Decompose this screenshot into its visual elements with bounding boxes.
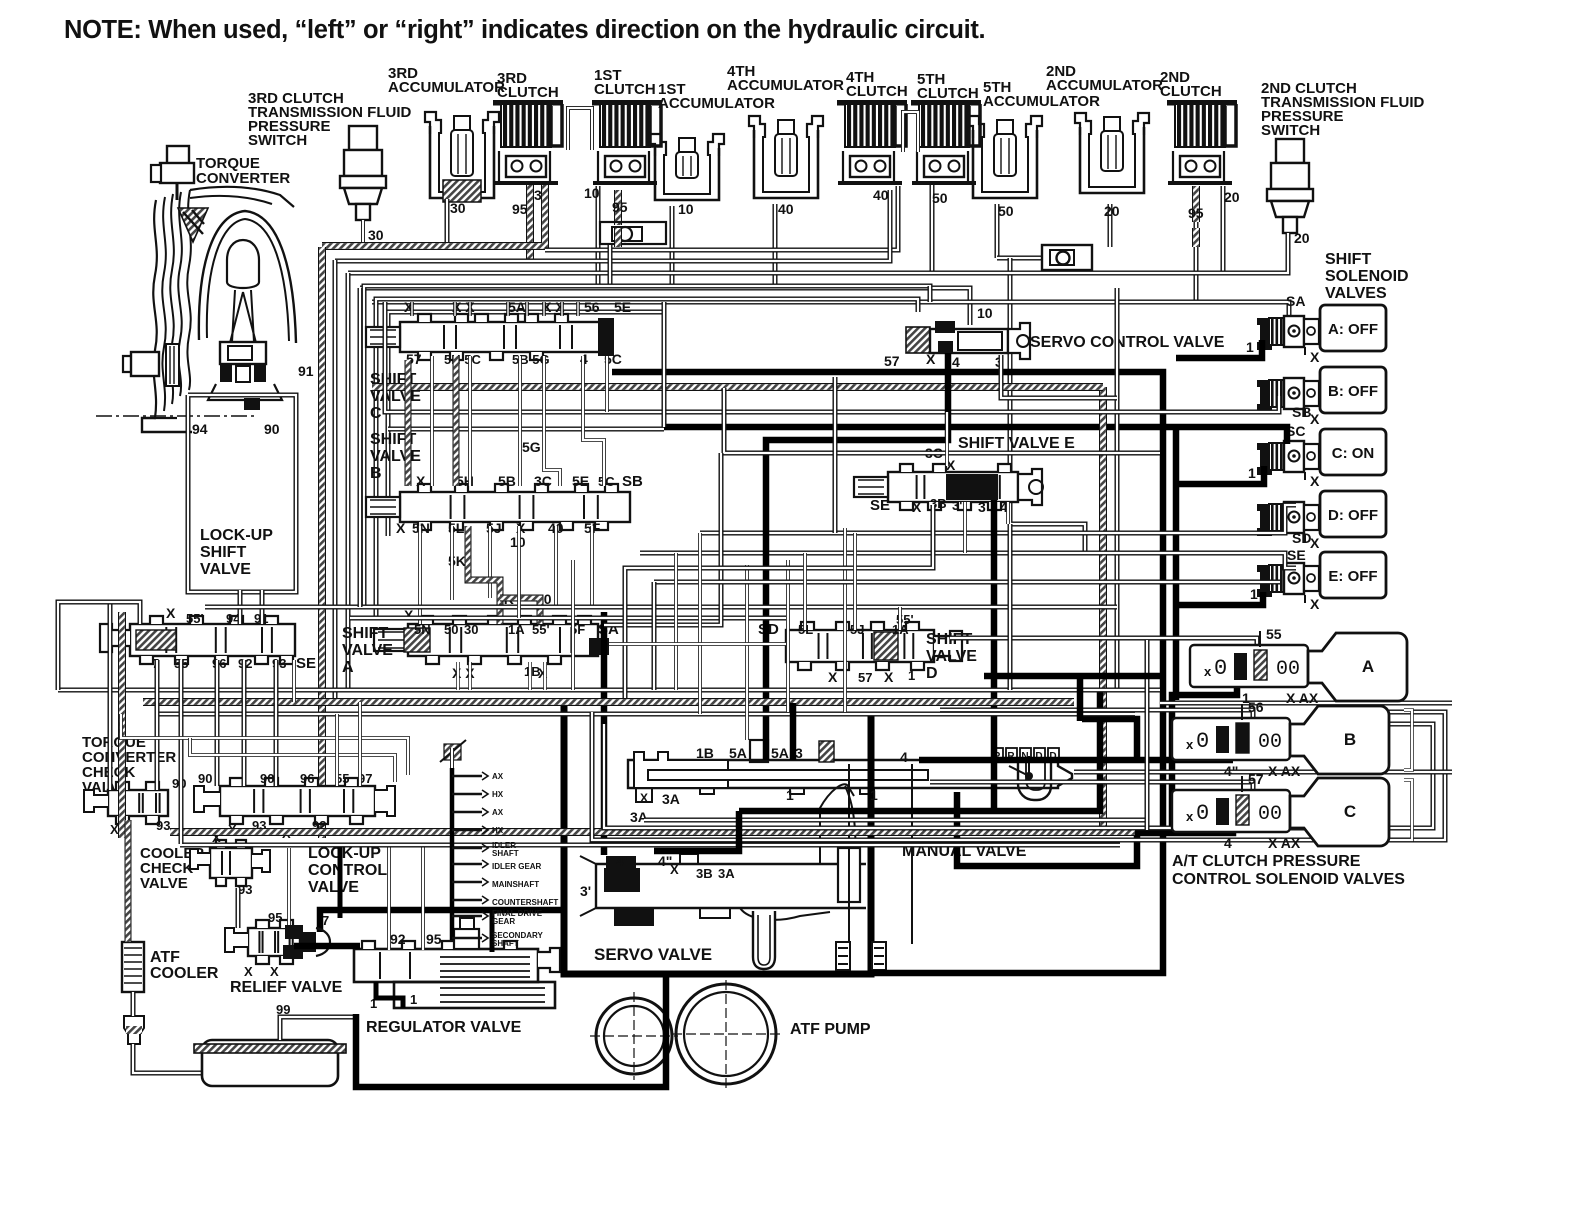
svg-text:5H 5C: 5H 5C [444, 352, 481, 367]
wires valve C bottom to valve B top [405, 360, 412, 486]
svg-text:00: 00 [1258, 731, 1282, 754]
svg-text:1: 1 [410, 992, 417, 1007]
svg-text:93: 93 [156, 818, 170, 833]
thick C-solenoid link loop [957, 792, 1233, 866]
svg-text:X AX: X AX [1268, 763, 1301, 779]
svg-text:95: 95 [426, 931, 442, 947]
thick 95 into regulator right [490, 908, 495, 952]
wire 3C drop to valve E [945, 412, 949, 466]
valve D port drops [803, 553, 807, 630]
bracket right of B box [1404, 710, 1412, 770]
svg-text:ACCUMULATOR: ACCUMULATOR [1046, 77, 1163, 94]
thick branch to solenoid E [1176, 592, 1263, 605]
valve A bottom stubs [456, 662, 460, 690]
svg-text:VALVE: VALVE [200, 561, 251, 578]
thick y426 horizontal [664, 427, 1287, 444]
svg-text:CONTROL SOLENOID VALVES: CONTROL SOLENOID VALVES [1172, 871, 1405, 888]
wire 20 from 2nd switch [1286, 233, 1291, 273]
svg-text:VALVE: VALVE [926, 648, 977, 665]
shift solenoid E [1257, 563, 1319, 597]
svg-text:B: OFF: B: OFF [1328, 383, 1378, 400]
lower frame 3 [155, 712, 1135, 717]
thick under manual valve [739, 690, 1100, 811]
wire 92 into regulator [387, 845, 391, 950]
wire 95 to relief valve [287, 848, 291, 925]
thick y676 [984, 673, 1165, 680]
svg-text:1: 1 [870, 787, 878, 803]
double y429 left part [388, 427, 664, 432]
svg-text:55: 55 [1266, 626, 1282, 642]
svg-text:B: B [1344, 730, 1356, 749]
frame inner 1 [376, 299, 918, 618]
svg-text:SB: SB [622, 473, 643, 490]
thick drain to servo box [356, 975, 666, 1087]
lube tree feed wire [450, 748, 454, 768]
svg-text:3': 3' [580, 883, 591, 899]
svg-text:SD: SD [1292, 530, 1311, 546]
left bus vertical extend [358, 288, 363, 607]
svg-text:ACCUMULATOR: ACCUMULATOR [727, 77, 844, 94]
svg-text:3': 3' [952, 498, 962, 513]
svg-text:10: 10 [584, 185, 600, 201]
lock-up shift valve tall box [188, 395, 296, 592]
svg-text:X AX: X AX [1286, 690, 1319, 706]
svg-text:SA: SA [1286, 293, 1305, 309]
ATF cooler [122, 942, 144, 992]
wire lockup box down [238, 590, 243, 624]
svg-text:4": 4" [1224, 763, 1238, 779]
left frame corner [58, 602, 140, 690]
svg-text:3A: 3A [718, 866, 735, 881]
left wire x110 [108, 600, 113, 790]
servo valve body [580, 764, 912, 970]
left wire hatched x122 [118, 612, 126, 838]
svg-text:10: 10 [977, 305, 993, 321]
manual valve right link to solenoids [1074, 770, 1452, 775]
svg-text:REGULATOR VALVE: REGULATOR VALVE [366, 1019, 522, 1036]
thick B-solenoid link from manual valve 4 [919, 757, 1233, 764]
svg-text:LOCK-UP: LOCK-UP [308, 845, 381, 862]
svg-text:A/T CLUTCH PRESSURE: A/T CLUTCH PRESSURE [1172, 853, 1361, 870]
svg-text:SE: SE [1287, 547, 1306, 563]
svg-text:SE: SE [296, 655, 316, 672]
frame inner 2 [388, 312, 662, 536]
svg-text:HX: HX [492, 826, 504, 835]
svg-text:0: 0 [1196, 729, 1209, 754]
4th clutch [837, 100, 907, 183]
manual valve lever gate PRNDD [992, 748, 1059, 800]
shift solenoid C [1257, 441, 1319, 475]
frame around shift valve C/B outer [364, 286, 930, 607]
wire from 3rd accumulator [445, 199, 450, 247]
svg-text:CLUTCH: CLUTCH [1160, 83, 1222, 100]
svg-text:5A: 5A [771, 745, 789, 761]
svg-text:95: 95 [1188, 205, 1204, 221]
wire valve A to valve D link [609, 642, 786, 646]
bridge 3rd-1st clutch [568, 108, 592, 150]
wire x676 drop [674, 553, 678, 690]
cooler check valve [190, 840, 270, 886]
thick servo control to left-down [766, 353, 948, 760]
svg-text:90: 90 [264, 421, 280, 437]
frame drop x930 [928, 286, 933, 302]
wire x835 vertical [833, 377, 838, 533]
svg-text:5G: 5G [522, 439, 541, 455]
wire 5G drop [605, 356, 609, 412]
valve E drops [963, 502, 967, 553]
2nd switch body [1267, 139, 1313, 233]
svg-text:X: X [912, 499, 922, 515]
svg-text:GEAR: GEAR [492, 917, 515, 926]
SD net double [700, 505, 1296, 533]
svg-text:30: 30 [450, 200, 466, 216]
hatch box above manual valve port 7 [819, 741, 834, 762]
svg-text:10: 10 [678, 201, 694, 217]
svg-text:95: 95 [612, 199, 628, 215]
svg-text:5B: 5B [498, 473, 516, 489]
svg-text:SB: SB [1292, 404, 1311, 420]
svg-text:SWITCH: SWITCH [1261, 122, 1320, 139]
svg-text:X: X [1310, 535, 1320, 551]
thick A-solenoid link [1172, 687, 1237, 830]
shift valve E body [854, 464, 1018, 510]
svg-text:92: 92 [390, 931, 406, 947]
thick branch to solenoid C [1176, 466, 1264, 484]
svg-text:X: X [244, 964, 253, 979]
svg-text:91: 91 [298, 363, 314, 379]
wire 1 line under manual valve [644, 818, 1147, 823]
thick line y910 relief to servo box [320, 910, 564, 932]
svg-text:3C: 3C [534, 473, 552, 489]
wire 3 port servo control [1001, 355, 1117, 398]
svg-text:SHAFT: SHAFT [492, 849, 519, 858]
thick branch to solenoid A [1176, 340, 1262, 358]
pressure control solenoid C [1172, 771, 1389, 851]
wire relief to regulator [294, 943, 360, 950]
svg-text:C: C [370, 405, 382, 422]
regulator bottom port thick [376, 982, 403, 1008]
shift valve C right end plug [598, 318, 614, 356]
wires from 1st clutch [596, 186, 601, 288]
svg-text:3A: 3A [662, 791, 680, 807]
wire y582 long [654, 580, 1280, 585]
3rd clutch [493, 100, 563, 183]
shift valve D body [786, 622, 934, 670]
svg-text:X: X [1310, 411, 1320, 427]
svg-text:20: 20 [1224, 189, 1240, 205]
svg-text:00: 00 [1276, 658, 1300, 681]
svg-text:3A: 3A [630, 809, 648, 825]
small box above manual valve [750, 740, 768, 762]
svg-text:55': 55' [532, 622, 550, 637]
svg-text:X: X [396, 520, 406, 536]
wires above lock-up control valve [121, 714, 408, 775]
regulator valve [354, 918, 560, 1008]
svg-text:ACCUMULATOR: ACCUMULATOR [983, 93, 1100, 110]
1st accumulator body [650, 134, 724, 200]
svg-text:CLUTCH: CLUTCH [497, 84, 559, 101]
svg-text:5N: 5N [414, 622, 431, 637]
svg-text:X AX: X AX [1268, 835, 1301, 851]
svg-text:1: 1 [1250, 586, 1258, 602]
wire X drop valve B [517, 526, 521, 618]
svg-text:HX: HX [492, 790, 504, 799]
wire 95 link 2nd clutch [614, 228, 622, 247]
55 net to A solenoid [950, 638, 1257, 652]
ATF pump gears [590, 980, 780, 1088]
ATF strainer funnel [124, 1016, 144, 1044]
svg-text:X: X [640, 791, 648, 805]
svg-text:AX: AX [492, 772, 504, 781]
svg-text:3: 3 [978, 499, 986, 515]
wire x664 feed [662, 302, 667, 427]
shift valve B body [366, 484, 630, 530]
svg-text:30: 30 [464, 622, 478, 637]
svg-text:X: X [166, 605, 176, 621]
svg-text:A: OFF: A: OFF [1328, 321, 1378, 338]
wire 30 hatched bus [359, 246, 367, 250]
shift valve A body [374, 616, 598, 664]
svg-text:56: 56 [1248, 699, 1264, 715]
SB wire y412 [385, 302, 1279, 412]
svg-text:20: 20 [1294, 230, 1310, 246]
svg-text:COOLER: COOLER [150, 965, 219, 982]
svg-text:RELIEF VALVE: RELIEF VALVE [230, 979, 343, 996]
svg-text:4': 4' [616, 853, 627, 869]
frame around manual valve [592, 712, 1445, 840]
hatch mark top of lube tree [444, 744, 461, 760]
svg-text:ATF: ATF [150, 949, 180, 966]
svg-text:VALVE: VALVE [140, 875, 188, 892]
wire SE from lockup valve [292, 660, 296, 702]
svg-text:CLUTCH: CLUTCH [917, 85, 979, 102]
frame around manual valve inner [604, 724, 1433, 828]
svg-text:1B: 1B [696, 745, 714, 761]
thick valve E down [991, 500, 998, 811]
svg-text:X: X [926, 351, 936, 367]
svg-text:56: 56 [584, 299, 600, 315]
wire x721 down to valve A-D link [604, 453, 721, 625]
svg-text:CONTROL: CONTROL [308, 862, 387, 879]
svg-text:SHIFT VALVE E: SHIFT VALVE E [958, 435, 1075, 452]
svg-text:4: 4 [952, 354, 960, 370]
svg-text:E: OFF: E: OFF [1328, 568, 1377, 585]
2nd clutch [1167, 100, 1237, 183]
svg-text:B: B [370, 465, 382, 482]
box D OFF [1320, 491, 1386, 537]
wire 99 from tank [280, 1017, 356, 1040]
relief valve body [248, 920, 300, 964]
servo valve thick enclosure [564, 700, 871, 974]
svg-text:COUNTERSHAFT: COUNTERSHAFT [492, 898, 558, 907]
svg-text:CONVERTER: CONVERTER [196, 170, 290, 187]
wire tc check to cooler hatched [125, 820, 132, 942]
wire x1010 extend [1008, 524, 1013, 690]
relief valve black ports [285, 925, 303, 939]
svg-text:50: 50 [932, 190, 948, 206]
oil pan tank [194, 1040, 346, 1086]
shift solenoid D [1257, 502, 1319, 536]
pressure switch body [340, 126, 386, 220]
svg-text:X: X [110, 822, 119, 837]
lock-up control valve spool [220, 778, 375, 824]
wire x700 drop [698, 533, 702, 714]
svg-text:X: X [1310, 349, 1320, 365]
svg-text:SHIFT: SHIFT [1325, 251, 1371, 268]
svg-text:1: 1 [908, 668, 915, 683]
wire from 5th accumulator [995, 204, 1000, 258]
5th clutch [911, 100, 981, 183]
wire 95 into regulator [421, 845, 425, 950]
thick manual valve feed x1080 [1077, 676, 1084, 721]
5th accumulator body [968, 116, 1042, 198]
svg-text:0: 0 [1196, 801, 1209, 826]
svg-text:SE: SE [870, 497, 890, 514]
wire cooler to strainer [131, 992, 136, 1016]
svg-text:X: X [270, 964, 279, 979]
svg-text:VALVE: VALVE [308, 879, 359, 896]
svg-text:VALVE: VALVE [370, 448, 421, 465]
svg-text:1: 1 [1248, 465, 1256, 481]
svg-text:VALVES: VALVES [1325, 285, 1387, 302]
svg-text:X: X [828, 669, 838, 685]
svg-text:1: 1 [1246, 339, 1254, 355]
wire 50 bus [348, 246, 1288, 273]
svg-text:40: 40 [778, 201, 794, 217]
svg-text:SHIFT: SHIFT [342, 625, 388, 642]
svg-text:30: 30 [368, 227, 384, 243]
torque converter [96, 146, 296, 432]
svg-text:40: 40 [873, 187, 889, 203]
wire 50 from 5th clutch [930, 185, 935, 273]
solenoid X stubs [1304, 347, 1306, 355]
thick SC bus from valve C to right [612, 372, 1163, 973]
svg-text:20: 20 [1104, 203, 1120, 219]
double vertical x1110 [1115, 288, 1120, 690]
svg-text:C: C [1344, 802, 1356, 821]
svg-text:0: 0 [1214, 656, 1227, 681]
57 net to C solenoid [930, 782, 1253, 796]
hatched vertical right [1099, 387, 1107, 832]
wires valve B bottom down [418, 526, 422, 624]
wire x724 and y453 [724, 388, 1160, 453]
svg-text:SERVO CONTROL VALVE: SERVO CONTROL VALVE [1030, 334, 1225, 351]
svg-text:4: 4 [1224, 835, 1232, 851]
svg-text:x: x [1204, 664, 1212, 679]
svg-text:X: X [1310, 596, 1320, 612]
svg-text:1A: 1A [508, 622, 525, 637]
servo control valve [906, 321, 1030, 359]
thick vertical 2 [1173, 426, 1180, 700]
bridge 4th-5th clutch [903, 112, 918, 152]
svg-text:57: 57 [884, 353, 900, 369]
lower frame 2 hatched [143, 698, 1074, 706]
svg-text:LOCK-UP: LOCK-UP [200, 527, 273, 544]
box C ON [1320, 429, 1386, 475]
svg-text:SHAFT: SHAFT [492, 939, 519, 948]
wire 95 from 3rd clutch [526, 185, 534, 260]
hatched horizontal y387 [372, 383, 1103, 391]
wires valve C top ports to bus [410, 302, 414, 316]
svg-text:x: x [1186, 809, 1194, 824]
wire left bundle hatched [318, 247, 326, 838]
svg-text:90: 90 [260, 771, 274, 786]
wire from 4th accumulator [773, 204, 778, 288]
svg-text:5E: 5E [572, 473, 589, 489]
thick link servo left [654, 811, 739, 851]
hatched vertical valve C to B [453, 356, 460, 486]
wire left bundle 1 [333, 260, 338, 700]
relief valve 7 cup [316, 928, 330, 956]
svg-text:SHIFT: SHIFT [200, 544, 246, 561]
svg-text:4: 4 [900, 749, 908, 765]
hatched 5K horizontal [500, 598, 540, 624]
thick from shift valve A down to servo [601, 612, 608, 855]
wire from 1st accumulator [670, 206, 675, 288]
svg-text:C: ON: C: ON [1332, 445, 1375, 462]
shift valve A left hatch detail [404, 628, 430, 652]
tc check valve body [108, 782, 168, 824]
check box outlet [608, 245, 613, 288]
doubles above valve A row [205, 605, 1117, 610]
shift solenoid A [1257, 316, 1319, 350]
svg-text:x: x [1186, 737, 1194, 752]
svg-text:1: 1 [786, 787, 794, 803]
long verticals center [571, 560, 575, 690]
svg-text:MAINSHAFT: MAINSHAFT [492, 880, 539, 889]
check valve on 95 line top [600, 222, 666, 244]
pressure control solenoid B [1172, 699, 1389, 779]
box E OFF [1320, 552, 1386, 598]
2nd accumulator body [1075, 113, 1149, 193]
shift valve D hatch [874, 632, 898, 660]
svg-text:5J: 5J [850, 622, 864, 637]
svg-text:IDLER GEAR: IDLER GEAR [492, 862, 542, 871]
svg-text:D: D [926, 665, 938, 682]
wire cooler check down [236, 888, 241, 928]
wire 3B from valve E [625, 505, 933, 698]
wire bus y288 [360, 288, 970, 325]
svg-text:94: 94 [192, 421, 208, 437]
lube tree [452, 768, 558, 948]
svg-text:ACCUMULATOR: ACCUMULATOR [658, 95, 775, 112]
shift valve D right end [934, 631, 962, 661]
shift valve E black spool [946, 474, 998, 500]
svg-text:55': 55' [186, 611, 204, 626]
svg-text:ACCUMULATOR: ACCUMULATOR [388, 79, 505, 96]
wire under A box [1160, 701, 1452, 706]
svg-text:NOTE: When used, “left” or “ri: NOTE: When used, “left” or “right” indic… [64, 16, 985, 44]
svg-text:D: OFF: D: OFF [1328, 507, 1378, 524]
3rd accumulator body [425, 112, 499, 202]
svg-text:5E: 5E [614, 299, 631, 315]
wire strainer to tank [133, 1044, 204, 1073]
wire 95 bus [335, 190, 890, 261]
box A OFF [1320, 305, 1386, 351]
wire bus y302 [372, 302, 1289, 318]
svg-text:95: 95 [268, 910, 282, 925]
SE net double [640, 553, 1296, 568]
4th accumulator body [749, 116, 823, 198]
svg-text:90: 90 [198, 771, 212, 786]
svg-text:SWITCH: SWITCH [248, 132, 307, 149]
svg-text:CLUTCH: CLUTCH [846, 83, 908, 100]
check valve near 2nd accumulator [1042, 245, 1092, 270]
svg-text:50: 50 [998, 203, 1014, 219]
svg-text:5A: 5A [508, 299, 526, 315]
1st clutch [592, 100, 662, 183]
wire left bundle 2 [346, 273, 351, 688]
